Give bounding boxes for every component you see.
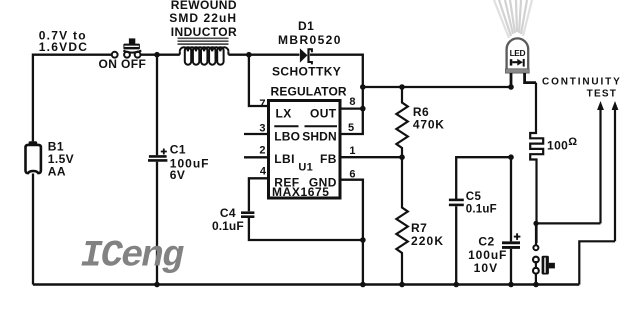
svg-text:LBO: LBO <box>274 129 300 143</box>
node: rail junction C5 <box>453 282 459 288</box>
svg-text:REGULATOR: REGULATOR <box>271 85 347 99</box>
pin 8 stub <box>341 107 363 109</box>
svg-text:C4: C4 <box>220 206 236 220</box>
node: rail junction S2 <box>533 282 539 288</box>
svg-text:FB: FB <box>320 152 337 166</box>
node: rail junction C2 <box>508 282 514 288</box>
inductor L1 core bars <box>178 38 229 44</box>
svg-text:REWOUND: REWOUND <box>171 0 237 12</box>
svg-text:0.1uF: 0.1uF <box>212 219 244 233</box>
switch S1 ON/OFF pushbutton <box>112 38 142 57</box>
svg-text:R6: R6 <box>413 105 429 119</box>
svg-text:TEST: TEST <box>587 89 617 100</box>
node: rail junction R7 <box>399 282 405 288</box>
svg-text:LX: LX <box>276 107 292 121</box>
battery B1 <box>26 141 41 173</box>
svg-text:7: 7 <box>259 98 265 110</box>
switch S2 continuity pushbutton <box>533 223 555 284</box>
svg-text:C1: C1 <box>170 143 186 157</box>
wire: battery to bottom rail <box>32 174 34 285</box>
node: rail junction C1 <box>154 282 160 288</box>
svg-text:6V: 6V <box>170 168 185 182</box>
node: C1 tap junction <box>154 52 160 58</box>
wire: output net horizontal <box>363 86 511 88</box>
node: C2/output tap junction <box>508 154 514 160</box>
pin 5 stub already in tie bar; pin 1 FB wire <box>341 156 403 158</box>
svg-text:OUT: OUT <box>310 107 337 121</box>
svg-text:470K: 470K <box>413 118 445 132</box>
diode D1 <box>300 48 312 64</box>
svg-text:SHDN: SHDN <box>302 129 337 143</box>
node: R6 top junction <box>399 84 405 90</box>
inductor L1 coil <box>180 47 229 64</box>
svg-text:MBR0520: MBR0520 <box>278 33 342 47</box>
wire: top rail from battery to switch <box>33 55 112 142</box>
svg-text:MAX1675: MAX1675 <box>272 185 330 199</box>
svg-text:0.1uF: 0.1uF <box>466 204 497 216</box>
wire: right probe to ground rail <box>579 241 615 284</box>
svg-text:220K: 220K <box>411 234 444 248</box>
svg-text:2: 2 <box>259 145 265 157</box>
capacitor C1 <box>148 55 167 285</box>
node: rail junction GND <box>360 282 366 288</box>
svg-text:5: 5 <box>348 122 354 134</box>
svg-text:4: 4 <box>260 166 267 178</box>
svg-text:CONTINUITY: CONTINUITY <box>542 77 620 88</box>
svg-text:3: 3 <box>259 123 265 135</box>
svg-text:C2: C2 <box>478 235 494 249</box>
svg-text:1: 1 <box>349 145 355 157</box>
svg-text:LED: LED <box>510 48 526 58</box>
svg-text:1.6VDC: 1.6VDC <box>39 40 89 54</box>
svg-text:8: 8 <box>349 96 355 108</box>
node: LX tap junction <box>246 52 252 58</box>
svg-text:C5: C5 <box>466 191 482 203</box>
svg-text:AA: AA <box>48 165 66 179</box>
node: probe junction <box>533 221 538 226</box>
svg-text:SCHOTTKY: SCHOTTKY <box>272 65 341 79</box>
probe arrow right <box>612 101 619 241</box>
svg-text:D1: D1 <box>298 19 314 33</box>
probe arrow left <box>597 101 604 223</box>
wire: switch to inductor <box>141 54 180 56</box>
svg-text:INDUCTOR: INDUCTOR <box>171 25 237 39</box>
wire: bottom ground rail <box>33 283 579 285</box>
resistor R7 <box>396 157 407 284</box>
capacitor C5 <box>449 200 464 285</box>
pin 3 stub <box>244 133 269 135</box>
op IC U1 regulator box <box>269 101 341 199</box>
pin 6 wire to ground <box>341 180 363 285</box>
svg-text:10V: 10V <box>474 261 499 275</box>
node: pin8 junction <box>360 106 366 112</box>
node: LED anode junction <box>508 84 514 90</box>
wire: C5 top routing to output vertical <box>456 157 510 199</box>
svg-text:LBI: LBI <box>274 152 295 166</box>
svg-text:ICeng: ICeng <box>81 236 185 278</box>
node: FB/R6/R7 junction <box>399 154 405 160</box>
node: output corner junction <box>360 84 366 90</box>
capacitor C2 <box>502 157 520 284</box>
resistor R8 100 ohm meander <box>530 83 543 243</box>
node: C4/GND junction <box>360 237 366 243</box>
pin 2 stub <box>244 156 269 158</box>
svg-text:U1: U1 <box>298 162 313 174</box>
svg-text:ON OFF: ON OFF <box>99 57 147 71</box>
LED light rays <box>494 0 532 38</box>
wire: OUT/SHDN tie bar <box>341 87 363 134</box>
wire: diode to output corner <box>310 55 363 87</box>
pin 4 wire to C4 <box>249 178 269 211</box>
LED DS1 <box>505 38 536 87</box>
capacitor C4 <box>241 213 363 240</box>
svg-text:SMD 22uH: SMD 22uH <box>169 11 237 25</box>
pin 7 wire from LX tap <box>249 55 269 106</box>
wire: inductor to diode <box>228 54 299 56</box>
resistor R6 <box>396 87 407 157</box>
wire: left probe to switch branch <box>536 222 601 224</box>
